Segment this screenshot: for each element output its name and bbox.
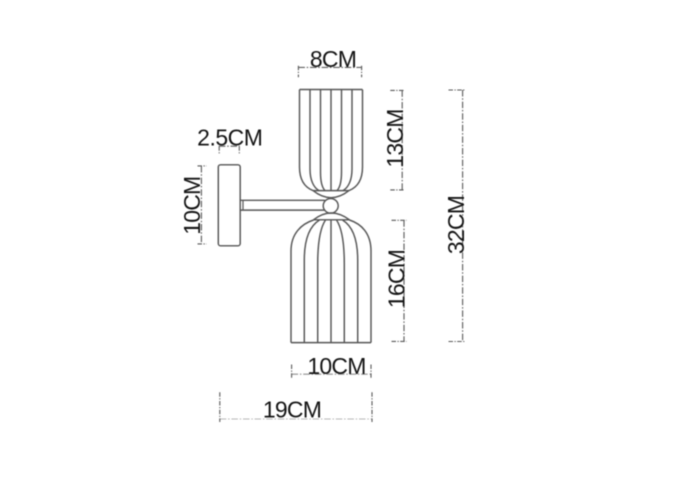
dimension 10CM left bbox=[179, 166, 207, 244]
arm bbox=[240, 200, 325, 210]
top shade rib 1 bbox=[310, 90, 319, 191]
bottom shade right wall bbox=[350, 220, 372, 343]
bottom shade bbox=[291, 220, 371, 343]
bottom shade rib 5 bbox=[343, 220, 358, 343]
svg-text:10CM: 10CM bbox=[307, 353, 365, 379]
top shade right wall bbox=[349, 90, 363, 191]
top shade rib 5 bbox=[343, 90, 352, 191]
bottom shade rib 3 (center) bbox=[330, 220, 332, 343]
svg-text:8CM: 8CM bbox=[310, 46, 356, 72]
arm bottom line bbox=[240, 209, 325, 211]
wall plate bbox=[218, 165, 240, 246]
top shade left wall bbox=[300, 90, 314, 191]
svg-text:19CM: 19CM bbox=[263, 397, 321, 423]
dimension 13CM bbox=[382, 90, 408, 189]
arm flange line bbox=[242, 200, 244, 210]
bottom cap dome bbox=[314, 213, 350, 220]
top shade rib 3 (center) bbox=[330, 90, 332, 191]
top shade rib 4 bbox=[337, 90, 342, 191]
svg-text:2.5CM: 2.5CM bbox=[197, 124, 262, 150]
bottom shade bottom line bbox=[291, 342, 371, 344]
lamp: top shade outline bbox=[300, 90, 363, 198]
bottom shade left wall bbox=[291, 220, 314, 343]
svg-text:16CM: 16CM bbox=[383, 250, 409, 308]
top shade rim line bbox=[313, 190, 349, 192]
dimension 16CM bbox=[383, 220, 409, 341]
arm top line bbox=[240, 199, 325, 201]
top shade top line bbox=[300, 89, 363, 91]
dimension 32CM bbox=[443, 90, 469, 342]
svg-text:10CM: 10CM bbox=[179, 177, 205, 235]
dimension 8CM bbox=[298, 46, 361, 77]
dimension 10CM bottom bbox=[292, 353, 371, 379]
svg-text:13CM: 13CM bbox=[382, 109, 408, 167]
ball joint bbox=[323, 199, 338, 214]
bottom shade rib 1 bbox=[304, 220, 319, 343]
dimension 19CM bbox=[220, 392, 372, 422]
svg-text:32CM: 32CM bbox=[443, 196, 469, 254]
top shade saucer arc bbox=[313, 191, 349, 198]
dimension 2.5CM bbox=[197, 124, 262, 154]
top shade rib 2 bbox=[321, 90, 326, 191]
bottom cap line bbox=[314, 219, 350, 221]
bottom shade rib 2 bbox=[318, 220, 326, 343]
bottom shade rib 4 bbox=[337, 220, 345, 343]
